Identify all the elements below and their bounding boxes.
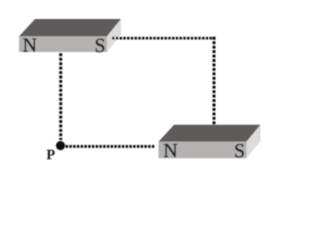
magnet M1 top face xyxy=(19,19,121,36)
magnet M2 front face xyxy=(159,142,247,159)
magnet M2 side face xyxy=(247,125,261,158)
magnet M1 front face xyxy=(19,36,107,52)
magnet M1 pole label S xyxy=(96,39,104,52)
magnet M2 top face xyxy=(159,125,261,142)
magnet M2 pole label S xyxy=(235,144,243,157)
wire: right vertical dotted line from corner down to M2 top xyxy=(213,37,216,125)
wire: left vertical dotted line from M1 bottom down to P xyxy=(59,53,62,140)
magnet M1 pole label N xyxy=(23,39,36,52)
magnet M2 pole label N xyxy=(164,144,177,157)
magnet M1 side face xyxy=(107,19,121,52)
magnet M2 (bottom-right bar magnet) xyxy=(159,125,261,158)
wire: top horizontal dotted line from M1 S pole to corner xyxy=(112,37,215,40)
node P (filled point) xyxy=(56,141,65,150)
wire: bottom horizontal dotted line from P to M2 N pole xyxy=(66,145,155,148)
magnet M1 (top-left bar magnet) xyxy=(19,19,121,52)
node P label xyxy=(47,150,55,159)
